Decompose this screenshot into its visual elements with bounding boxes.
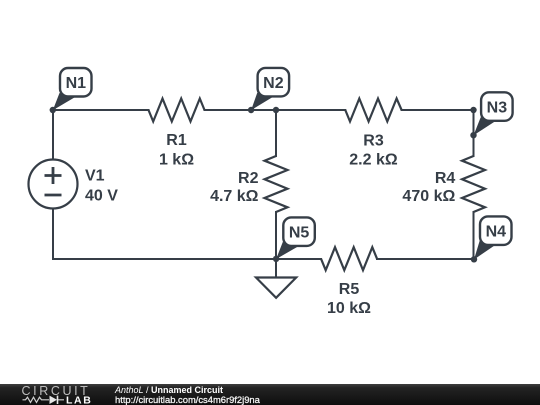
label R4 value [402,170,455,205]
svg-text:40 V: 40 V [85,188,118,205]
svg-text:10 kΩ: 10 kΩ [327,300,371,317]
svg-text:N3: N3 [487,100,508,117]
svg-text:R3: R3 [363,132,384,149]
resistor R3 [345,99,401,122]
node N1 [53,68,92,110]
wire ground stub [275,259,277,278]
svg-text:1 kΩ: 1 kΩ [159,151,194,168]
node N4 [474,216,512,259]
junction dot N5 anchor [273,256,279,262]
svg-text:R5: R5 [339,281,360,298]
resistor R2 [265,156,288,212]
resistor R1 [149,99,205,122]
node N5 [276,217,315,259]
wire right rail upper (N3 corner to R4) [473,110,475,156]
footer bar [0,384,540,405]
junction dot N1 anchor [50,107,56,113]
label R1 value [159,132,194,168]
svg-text:N4: N4 [486,224,507,241]
wire left rail upper (N1 to V1) [52,110,54,160]
resistor R5 [321,247,377,270]
wire bottom rail right (R5 to corner N4) [377,258,474,260]
svg-text:N2: N2 [263,75,284,92]
label R5 value [327,281,371,317]
svg-text:R2: R2 [238,170,259,187]
wire top rail left (N1 to R1) [53,109,149,111]
junction dot N2 anchor [248,107,254,113]
node N3 [474,92,513,135]
resistor R4 [462,156,485,212]
svg-text:LAB: LAB [66,395,92,405]
svg-text:2.2 kΩ: 2.2 kΩ [349,151,398,168]
svg-text:N1: N1 [66,75,87,92]
label V1 value [85,168,118,205]
logo resistor squiggle [23,397,46,402]
label R2 value [210,170,259,205]
ground [256,278,296,298]
svg-text:R4: R4 [435,170,456,187]
svg-text:N5: N5 [289,225,310,242]
svg-text:4.7 kΩ: 4.7 kΩ [210,188,259,205]
junction dot N4 anchor [471,256,477,262]
node N2 [251,68,289,110]
junction dot top-right corner [470,107,476,113]
junction dot N3 anchor [470,132,476,138]
wire right rail lower (R4 to bottom corner) [473,212,475,259]
wire middle branch lower (R2 to N5) [275,212,277,259]
wire bottom rail left (to R5) [53,258,321,260]
label R3 value [349,132,398,168]
svg-text:V1: V1 [85,168,105,185]
logo diode [45,396,64,404]
svg-text:http://circuitlab.com/cs4m6r9f: http://circuitlab.com/cs4m6r9f2j9na [115,394,261,405]
wire middle branch upper (N2 to R2) [275,110,277,156]
svg-text:470 kΩ: 470 kΩ [402,188,455,205]
svg-text:R1: R1 [166,132,187,149]
wire left rail lower (V1 to bottom rail) [52,209,54,260]
wire top rail middle (R1 to R3 through N2) [205,109,346,111]
voltage source V1 [29,160,78,209]
wire top rail right (R3 to corner N3) [402,109,474,111]
junction dot N2 branch [273,107,279,113]
